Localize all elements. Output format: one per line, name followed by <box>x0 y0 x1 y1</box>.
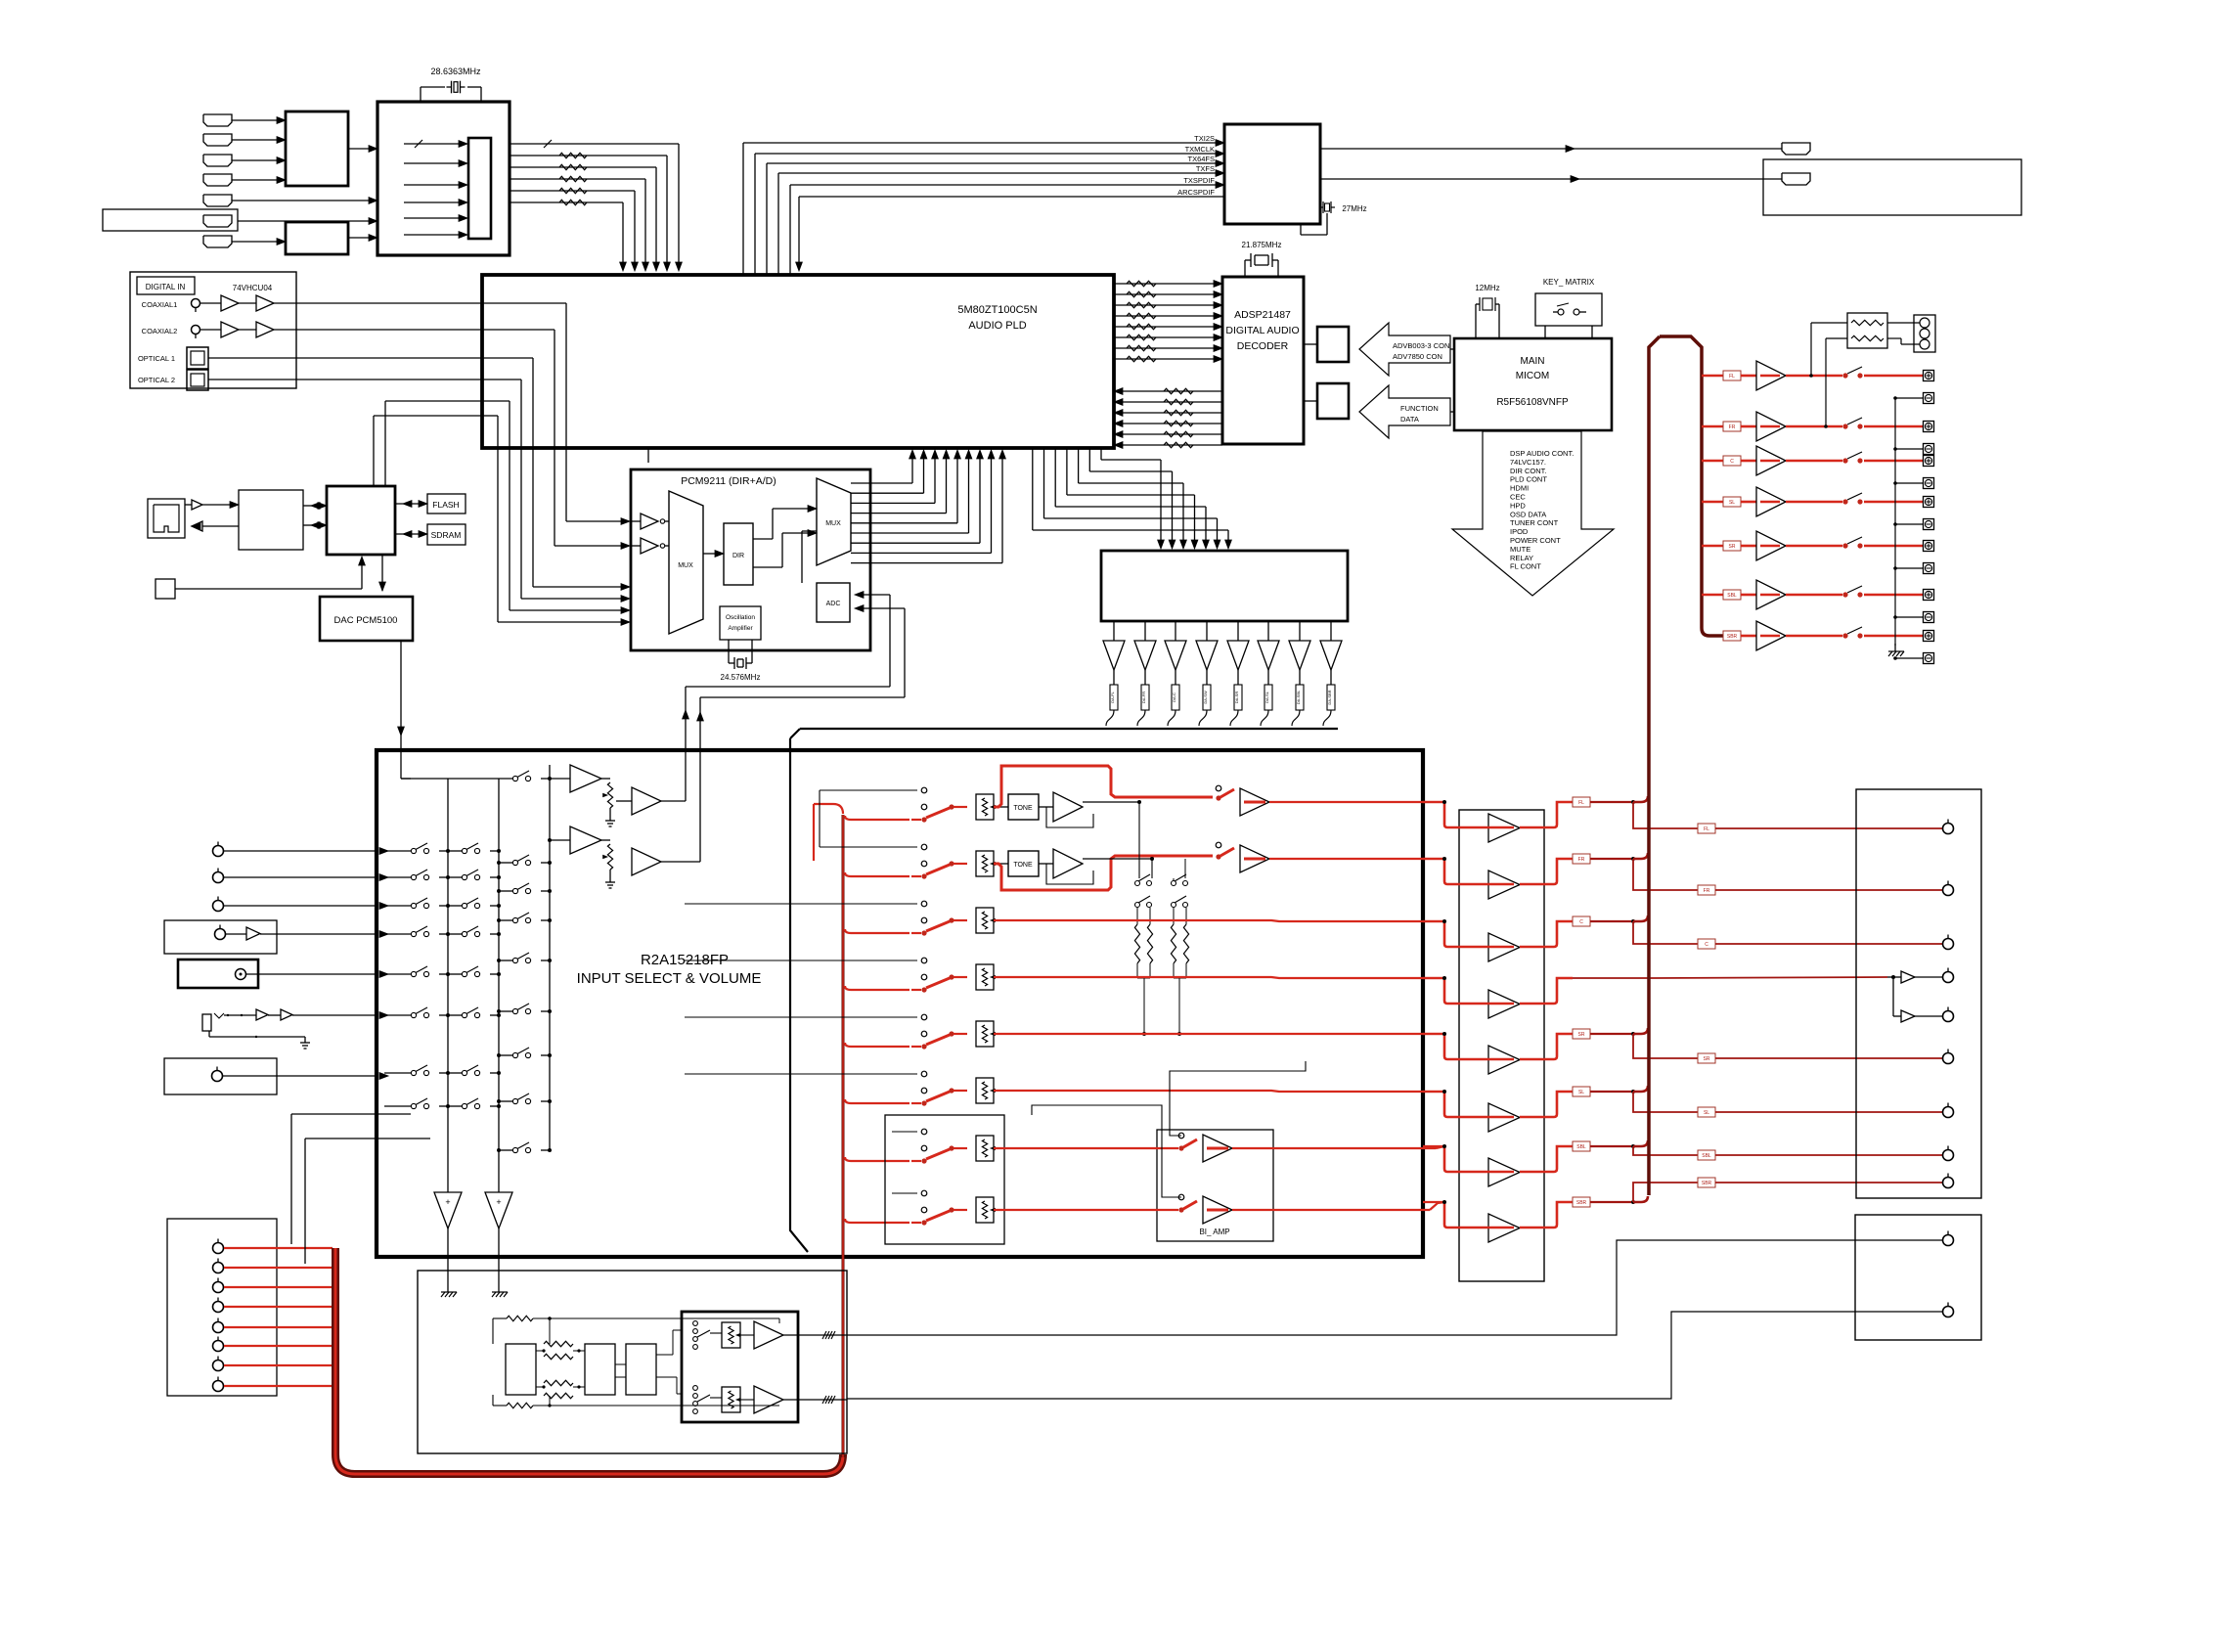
crystal X4 12MHz <box>1475 304 1477 338</box>
wire zone2 L <box>847 1240 1942 1335</box>
svg-text:HDMI: HDMI <box>1510 484 1529 493</box>
svg-text:SBL: SBL <box>1702 1153 1711 1159</box>
wire rec R to adc <box>661 861 700 863</box>
wire usb to cpu <box>175 588 362 590</box>
wire hdmi receiver audio out 6 <box>510 201 623 203</box>
svg-text:BI_ AMP: BI_ AMP <box>1199 1228 1229 1236</box>
biamp select wiring <box>1170 1061 1306 1136</box>
dsp block c <box>626 1344 656 1395</box>
wire multi in 8 red <box>224 1385 333 1387</box>
connector multi in 5 <box>213 1322 224 1333</box>
wire speaker return SBR <box>1895 657 1923 659</box>
bi amp box <box>1157 1130 1273 1241</box>
wire lan tx <box>185 504 192 506</box>
summing amp right <box>485 1192 512 1228</box>
ground rec R <box>609 876 611 882</box>
black select line row 1 <box>820 789 917 791</box>
wire multi in 3 red <box>224 1286 333 1288</box>
connector analog in 2 <box>213 872 224 883</box>
hdmi transmitter U2 <box>1224 124 1320 224</box>
wire multi in 4 red <box>224 1306 333 1308</box>
switch matrix col1 <box>384 973 411 975</box>
connector pre out <box>1943 1150 1954 1161</box>
label box C <box>1573 916 1590 926</box>
main micom R5F56108VNFP <box>1454 338 1612 430</box>
svg-text:KEY_ MATRIX: KEY_ MATRIX <box>1543 278 1595 287</box>
black select line row 2 <box>820 846 917 848</box>
tone amp 1 <box>1039 806 1053 808</box>
svg-text:PCM9211 (DIR+A/D): PCM9211 (DIR+A/D) <box>681 475 776 487</box>
rec out pot R <box>601 839 610 841</box>
wire optical1 <box>208 357 482 359</box>
connector multi in 4 <box>213 1302 224 1313</box>
wire hdmi6 to receiver <box>238 220 370 222</box>
svg-text:SBR: SBR <box>1576 1200 1587 1206</box>
svg-text:C: C <box>1730 459 1734 465</box>
terminal SBL minus <box>1924 612 1934 623</box>
svg-text:FL: FL <box>1729 374 1735 380</box>
sdram memory <box>427 524 466 545</box>
relay SBL <box>1842 592 1847 597</box>
zone amp zoneL <box>740 1334 754 1336</box>
wire micom to arrow2 <box>1450 411 1454 413</box>
svg-text:SBR: SBR <box>1702 1181 1712 1186</box>
svg-text:PLD CONT: PLD CONT <box>1510 475 1547 484</box>
wire pamp L out red <box>1269 801 1444 803</box>
relay driver SL <box>1756 487 1786 516</box>
wire pld to adsp 6 <box>1114 336 1215 338</box>
ground sum L <box>447 1284 449 1292</box>
connector phones jack <box>202 1014 211 1031</box>
connector aux <box>212 1071 223 1082</box>
ground phones <box>304 1037 306 1043</box>
rec out buffer L2 <box>616 800 632 802</box>
black select line row 7 <box>892 1131 917 1133</box>
switch matrix col3 <box>499 862 512 864</box>
switch matrix col2 <box>448 1105 462 1107</box>
pre out box <box>1856 789 1981 1198</box>
volume resistor VR4 <box>976 964 994 990</box>
inverter 74VHCU04 c <box>221 322 239 337</box>
wire pld to adsp 7 <box>1114 347 1215 349</box>
buffer dac out DA-SL <box>1267 621 1269 641</box>
svg-text:ARCSPDIF: ARCSPDIF <box>1177 188 1215 197</box>
svg-text:SBL: SBL <box>1576 1144 1586 1150</box>
mux1 of pcm9211 <box>669 491 703 634</box>
wire speaker return SR <box>1895 567 1923 569</box>
volume switch row 6 <box>845 1099 909 1103</box>
relay driver SBR <box>1756 621 1786 650</box>
power amp channel SR <box>1423 1033 1444 1035</box>
relay FL <box>1842 373 1847 378</box>
wire hdmi receiver audio out 5 <box>510 190 635 192</box>
svg-text:TXMCLK: TXMCLK <box>1185 145 1215 154</box>
connector zone2 R <box>1943 1307 1954 1317</box>
svg-text:R5F56108VNFP: R5F56108VNFP <box>1496 397 1569 408</box>
resistor pair upper <box>536 1350 544 1352</box>
wire speaker return SBL <box>1895 616 1923 618</box>
switch matrix col1 <box>384 1014 411 1016</box>
connector pre out <box>1943 824 1954 834</box>
wire volume out red <box>994 920 1444 921</box>
terminal SR plus <box>1924 541 1934 552</box>
wire hdmi7 to switch2 <box>232 241 277 243</box>
wire zone out zoneL <box>783 1334 847 1336</box>
svg-text:TX64FS: TX64FS <box>1187 155 1215 163</box>
svg-text:COAXIAL2: COAXIAL2 <box>142 327 178 335</box>
label box preout FL <box>1698 824 1715 833</box>
volume switch row 7 <box>845 1157 909 1161</box>
tone feedback 1 <box>1046 807 1093 827</box>
zone volume channel zoneR <box>693 1386 698 1391</box>
svg-text:TUNER CONT: TUNER CONT <box>1510 518 1559 527</box>
terminal SBR plus <box>1924 631 1934 642</box>
switch matrix col1 <box>384 905 411 907</box>
label box preout C <box>1698 939 1715 949</box>
wire optical2 <box>208 379 482 380</box>
tone defeat resistors <box>1136 908 1138 924</box>
resistor pair lower <box>536 1386 544 1388</box>
connector phono <box>236 969 246 980</box>
wire module to cpu b <box>303 524 319 526</box>
wire hdmi input to switch <box>232 119 277 121</box>
wire hdmi input to switch <box>232 139 277 141</box>
terminal FL minus <box>1924 393 1934 404</box>
svg-text:MUTE: MUTE <box>1510 545 1530 554</box>
wire pcm9211 out 3 <box>851 502 935 504</box>
matrix bus 1 <box>447 779 449 1192</box>
wire to speaker bus SL <box>1633 1086 1648 1092</box>
wire lan rx <box>202 525 239 527</box>
svg-text:SR: SR <box>1704 1056 1710 1062</box>
wire volume out red <box>994 977 1444 978</box>
wire block c out <box>656 1354 673 1356</box>
rec out buffer L1 <box>548 777 552 781</box>
biamp switch L <box>1178 1133 1184 1139</box>
inverter 74VHCU04 d <box>256 322 274 337</box>
zone volume channel zoneL <box>693 1321 698 1326</box>
tuner box <box>164 920 277 954</box>
svg-text:FR: FR <box>1704 888 1710 894</box>
wire preout branch FR <box>1633 859 1698 890</box>
wire adsp to pld 1 <box>1123 390 1222 392</box>
svg-text:FL: FL <box>1578 800 1584 806</box>
power amp channel SW <box>1423 977 1444 979</box>
connector zone2 L <box>1943 1235 1954 1246</box>
relay driver SR <box>1756 531 1786 560</box>
wire hdmi input to switch <box>232 179 277 181</box>
wire to speaker bus C <box>1633 915 1648 921</box>
wire biamp R out red <box>1232 1209 1430 1211</box>
connector analog in 1 <box>213 846 224 857</box>
tone feedback 2 <box>1046 864 1093 884</box>
wire TXI2S <box>742 143 744 275</box>
wire zone2 R <box>847 1312 1942 1399</box>
switch matrix col3 <box>499 960 512 961</box>
connector speaker sense <box>1914 315 1935 352</box>
biamp buffer R <box>1203 1196 1232 1224</box>
relay driver SBL <box>1756 580 1786 609</box>
power amp buffer L <box>1240 788 1269 816</box>
zone2 out box <box>1855 1215 1981 1340</box>
svg-text:RELAY: RELAY <box>1510 554 1533 562</box>
label box preout SR <box>1698 1053 1715 1063</box>
multi channel input box <box>167 1219 277 1396</box>
switch matrix col1 <box>384 1105 411 1107</box>
switch matrix col2 <box>448 933 462 935</box>
wire coaxial2 <box>200 329 221 331</box>
dac mux 74LVC157 box <box>1101 551 1348 621</box>
wire analog in 2 <box>223 876 377 878</box>
switch matrix col3 <box>499 890 512 892</box>
oscillation amplifier <box>720 606 761 640</box>
wire multi in 6 red <box>224 1345 333 1347</box>
svg-text:SR: SR <box>1729 544 1736 550</box>
wire speaker return C <box>1895 482 1923 484</box>
wire dir to mux2 b <box>753 566 782 568</box>
wire blocks b-c <box>615 1363 626 1365</box>
svg-text:DATA: DATA <box>1400 415 1419 424</box>
switch matrix col3 <box>499 1054 512 1056</box>
wire zobel b <box>1826 337 1847 339</box>
black select line row 4 <box>685 960 917 961</box>
volume switch row 2 <box>845 872 909 876</box>
label box speaker C <box>1723 456 1741 466</box>
wire pld to adsp 2 <box>1114 293 1215 295</box>
power amp channel SBR <box>1423 1201 1444 1203</box>
svg-text:SBR: SBR <box>1727 634 1738 640</box>
wire pld to dac mux 5 <box>1054 448 1056 507</box>
svg-text:24.576MHz: 24.576MHz <box>721 673 761 682</box>
crystal X1 28.6363MHz <box>420 87 421 102</box>
flash box of dsp <box>1317 383 1349 419</box>
connector HDMI front panel box <box>103 209 238 231</box>
hdmi switch U_SW2 <box>286 222 348 254</box>
wire TXSPDIF <box>789 185 791 275</box>
wire digital audio to pcm9211 <box>482 400 510 402</box>
wire pld to dac mux 6 <box>1043 448 1045 518</box>
svg-text:FR: FR <box>1578 857 1585 863</box>
wire cpu to flash <box>395 503 420 505</box>
wire hdmi5 to receiver <box>232 200 370 201</box>
svg-text:POWER CONT: POWER CONT <box>1510 536 1561 545</box>
wire matrix to multi b <box>305 1138 430 1139</box>
wire riser network to pld a <box>373 416 375 486</box>
wire digital audio to pcm9211 <box>482 379 521 380</box>
connector pre out <box>1943 885 1954 896</box>
tone box 1 <box>994 806 1008 808</box>
speaker signal trunk <box>1660 336 1723 636</box>
power amp column box <box>1459 810 1544 1281</box>
wire preout branch SR <box>1633 1034 1698 1058</box>
wire adsp to pld 2 <box>1123 401 1222 403</box>
dsp block a <box>506 1344 536 1395</box>
connector HDMI OUT 2 <box>1782 173 1810 185</box>
wire tone amp R out <box>1083 858 1152 860</box>
wire dir to mux2 a <box>753 538 773 540</box>
svg-text:CEC: CEC <box>1510 493 1526 502</box>
volume switch row 5 <box>845 1043 909 1047</box>
zone amp zoneR <box>740 1399 754 1401</box>
svg-text:+: + <box>496 1197 501 1207</box>
wire digital audio to pcm9211 <box>482 415 498 417</box>
connector multi in 2 <box>213 1263 224 1273</box>
wire dsp to flash <box>1304 400 1317 402</box>
wire speaker return FL <box>1895 397 1923 399</box>
black select line row 3 <box>685 903 917 905</box>
buffer dac out DA-SBL <box>1299 621 1301 641</box>
wire preout branch FL <box>1633 802 1698 828</box>
red select bus vertical <box>842 815 845 1457</box>
inverter 74VHCU04 b <box>256 295 274 311</box>
svg-text:MICOM: MICOM <box>1516 371 1549 381</box>
speaker channel C <box>1702 460 1723 463</box>
wire dac return row <box>401 778 411 780</box>
wire matrix to multi a <box>291 1113 411 1115</box>
wire adc input L <box>861 594 890 596</box>
svg-text:AUDIO PLD: AUDIO PLD <box>968 320 1026 332</box>
connector multi in 7 <box>213 1361 224 1371</box>
volume resistor VR5 <box>976 1021 994 1047</box>
relay driver C <box>1756 446 1786 475</box>
wire to speaker bus FL <box>1633 796 1648 802</box>
svg-text:DA-SBL: DA-SBL <box>1296 690 1301 704</box>
wire to speaker bus FR <box>1633 853 1648 859</box>
power amp buffer R <box>1240 845 1269 872</box>
label box speaker FR <box>1723 422 1741 431</box>
wire pcm9211 out 8 <box>851 552 992 554</box>
wire pld to adsp 3 <box>1114 304 1215 306</box>
wire row1 into zone box <box>778 1318 780 1323</box>
zone dsp box <box>418 1271 847 1453</box>
svg-text:21.875MHz: 21.875MHz <box>1242 241 1282 249</box>
speaker channel FL <box>1702 375 1723 378</box>
svg-text:5M80ZT100C5N: 5M80ZT100C5N <box>957 304 1037 316</box>
wire preout branch SBR <box>1633 1183 1698 1202</box>
zone volume VR zoneR <box>722 1387 740 1412</box>
relay driver FL <box>1756 361 1786 390</box>
buffer dac out DA-C <box>1175 621 1176 641</box>
buffer dac out DA-SR <box>1237 621 1239 641</box>
label box FL <box>1573 797 1590 807</box>
multi/direct select box <box>885 1115 1004 1244</box>
wire pcm9211 out 5 <box>851 522 957 524</box>
wire dsp in row 2 <box>493 1405 507 1406</box>
crystal X2 27MHz <box>1300 224 1302 235</box>
wire pcm9211 out 6 <box>851 532 969 534</box>
connector multi in 3 <box>213 1282 224 1293</box>
power amp channel C <box>1423 920 1444 922</box>
black select line row 6 <box>685 1073 917 1075</box>
wire adc input R <box>861 607 905 609</box>
connector HDMI IN 3 <box>203 155 232 166</box>
crystal X3 21.875MHz <box>1244 260 1246 277</box>
relay C <box>1842 458 1847 463</box>
inverter in pcm9211 a <box>641 513 658 529</box>
label box preout SBR <box>1698 1178 1715 1187</box>
buffer subwoofer 1 <box>1901 971 1915 983</box>
rec out buffer R2 <box>632 848 661 875</box>
crystal X5 24.576MHz <box>728 640 730 663</box>
speaker channel FR <box>1702 425 1723 428</box>
amp section top boundary <box>800 728 1338 730</box>
red bus multi input trunk dark <box>335 1248 843 1474</box>
switch matrix col3 <box>499 919 512 921</box>
hdmi switch U_SW1 <box>286 112 348 186</box>
switch matrix col2 <box>448 905 462 907</box>
switch matrix dac row col3 <box>401 778 512 780</box>
svg-text:C: C <box>1705 942 1708 948</box>
switch matrix col1 <box>384 850 411 852</box>
terminal SR minus <box>1924 563 1934 574</box>
wire digital audio to pcm9211 <box>482 302 566 304</box>
volume resistor VR3 <box>976 908 994 933</box>
wire cpu to dac <box>381 555 383 591</box>
relay SL <box>1842 499 1847 504</box>
terminal C minus <box>1924 478 1934 489</box>
wire volume out red <box>994 1091 1444 1092</box>
inverter in pcm9211 b <box>641 538 658 554</box>
switch matrix col3 <box>499 1100 512 1102</box>
volume resistor VR2 <box>976 851 994 876</box>
wire pld to adsp 4 <box>1114 315 1215 317</box>
wire ARCSPDIF <box>799 196 1224 198</box>
wire rec L to adc <box>661 800 686 802</box>
micom control arrow <box>1452 431 1614 596</box>
label box SBL <box>1573 1141 1590 1151</box>
tone defeat relays <box>1138 802 1140 878</box>
volume resistor VR7 <box>976 1136 994 1161</box>
wire pcm9211 out 2 <box>851 492 924 494</box>
svg-text:TXI2S: TXI2S <box>1194 134 1215 143</box>
wire analog in 1 <box>223 850 377 852</box>
svg-text:DIR CONT.: DIR CONT. <box>1510 467 1547 475</box>
terminal FL plus <box>1924 371 1934 381</box>
label box FR <box>1573 854 1590 864</box>
wire pcm9211 out 7 <box>851 542 980 544</box>
pcm9211 dir/adc <box>631 469 870 650</box>
connector pre out <box>1943 1178 1954 1188</box>
wire mux2 tap to adc <box>801 531 803 583</box>
wire dsp to sdram <box>1304 343 1317 345</box>
wire TX64FS <box>766 163 768 275</box>
power amp channel SBL <box>1423 1145 1444 1147</box>
red loop front L over tone <box>994 766 1213 807</box>
buffer phones b <box>281 1009 292 1020</box>
speaker return trunk <box>1894 398 1896 646</box>
wire zobel to sense b <box>1887 337 1901 339</box>
svg-text:ADC: ADC <box>826 601 841 607</box>
terminal SBL plus <box>1924 590 1934 601</box>
svg-text:27MHz: 27MHz <box>1342 204 1366 213</box>
connector pre out <box>1943 1053 1954 1064</box>
label box speaker SBR <box>1723 631 1741 641</box>
svg-text:FL: FL <box>1704 826 1709 832</box>
wire pld to adsp 5 <box>1114 326 1215 328</box>
label box SL <box>1573 1087 1590 1096</box>
volume resistor VR1 <box>976 794 994 820</box>
dsp block b <box>585 1344 615 1395</box>
svg-text:74LVC157.: 74LVC157. <box>1510 458 1546 467</box>
svg-text:Oscillation: Oscillation <box>726 614 755 621</box>
label box speaker SBL <box>1723 590 1741 600</box>
connector HDMI IN 5 <box>203 195 232 206</box>
svg-text:MUX: MUX <box>825 520 841 527</box>
buffer lan tx <box>192 500 202 510</box>
svg-text:ADSP21487: ADSP21487 <box>1234 309 1291 321</box>
biamp buffer L <box>1203 1135 1232 1162</box>
svg-text:Amplifier: Amplifier <box>728 625 753 632</box>
